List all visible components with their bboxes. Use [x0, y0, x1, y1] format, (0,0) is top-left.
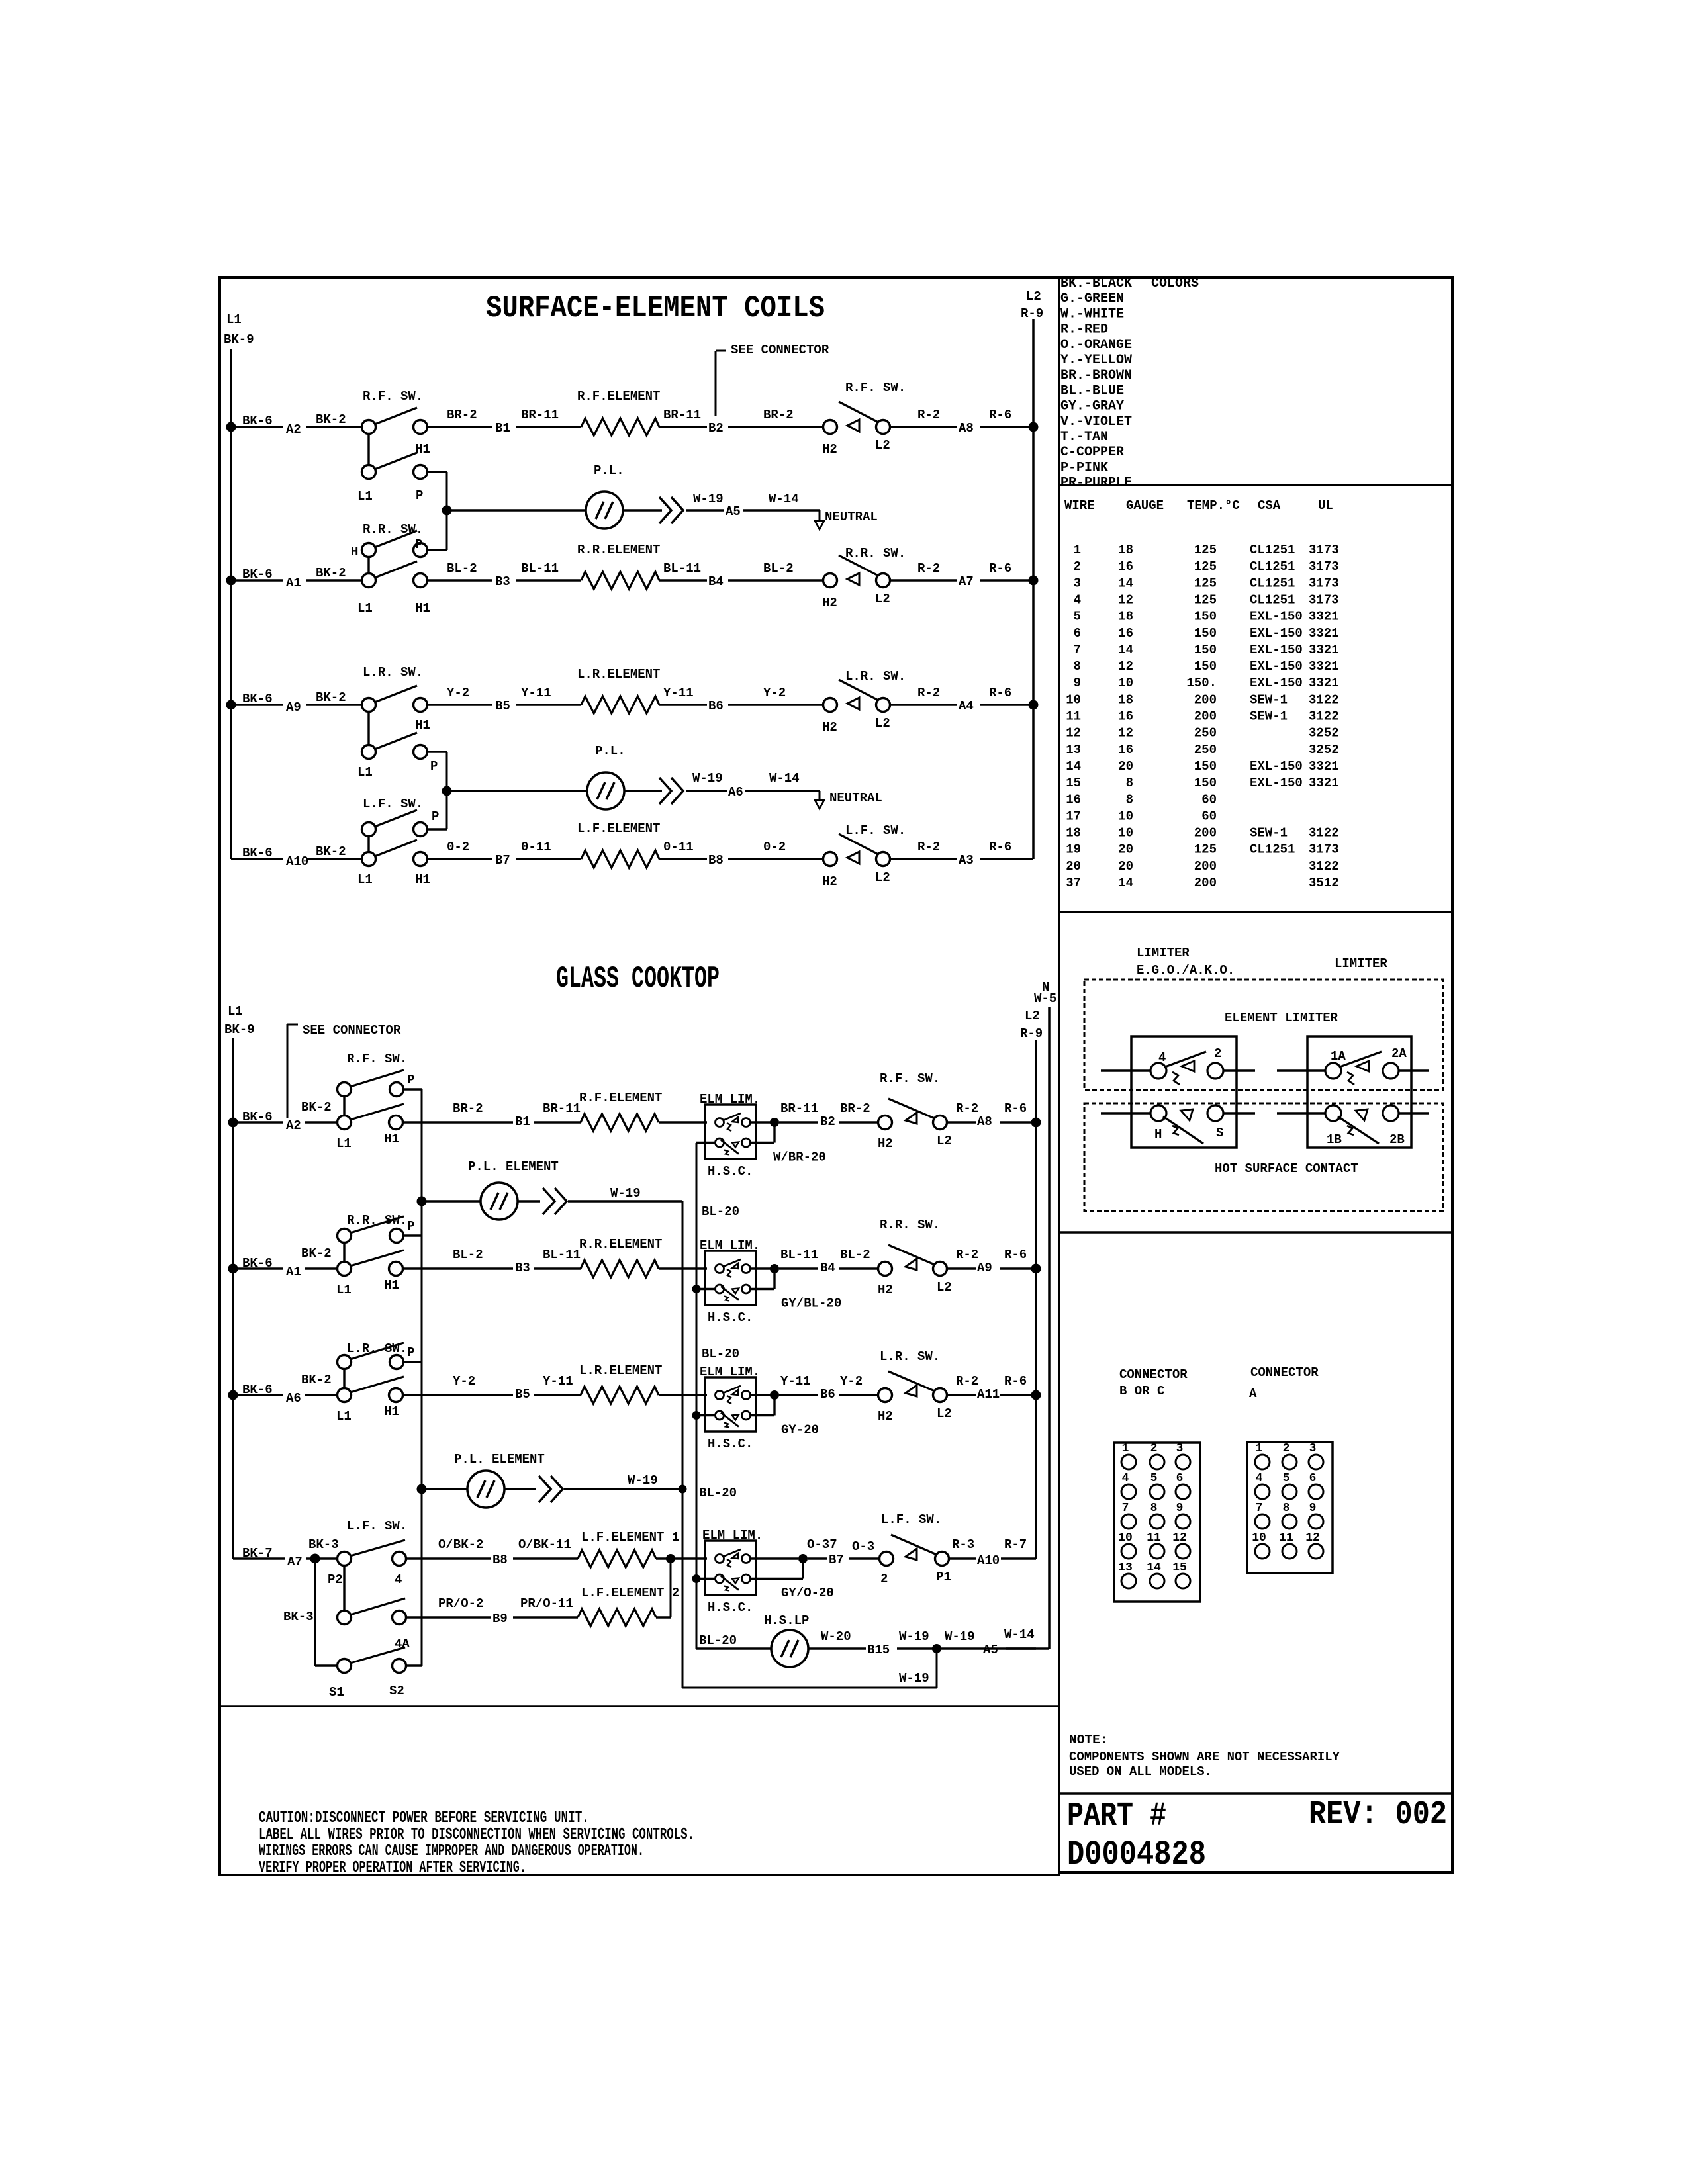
svg-text:EXL-150: EXL-150 [1250, 676, 1303, 690]
svg-text:W-5: W-5 [1034, 991, 1056, 1006]
svg-text:W-19: W-19 [899, 1671, 929, 1686]
svg-text:10: 10 [1252, 1531, 1266, 1545]
wire R-2 A8 R-6 (glass row R.F.) [947, 1121, 976, 1123]
wire R-2 A9 R-6 (glass row R.R.) [947, 1267, 976, 1269]
node A7 dot (surface row R.R.) [1029, 576, 1039, 586]
svg-text:125: 125 [1194, 842, 1217, 857]
wire BK-6 A1 BK-2 (glass row R.R.) [233, 1267, 283, 1269]
svg-text:R.F.ELEMENT: R.F.ELEMENT [577, 389, 660, 404]
wire P to pilot bus (R.F., surface) [428, 471, 447, 473]
wire BL-2 B3 BL-11 (surface row R.R.) [428, 579, 492, 581]
wire W-14 to neutral (surface P.L.1) [743, 509, 820, 511]
node element junction dot (glass L.F.) [666, 1554, 675, 1563]
svg-text:P: P [432, 809, 439, 824]
svg-text:A9: A9 [286, 700, 301, 715]
svg-text:9: 9 [1309, 1502, 1317, 1515]
svg-text:BK-2: BK-2 [301, 1100, 332, 1115]
node A6 dot (glass row L.R.) [228, 1390, 238, 1400]
svg-text:P-PINK: P-PINK [1060, 460, 1108, 475]
svg-text:7: 7 [1256, 1502, 1263, 1515]
svg-text:G.-GREEN: G.-GREEN [1060, 291, 1124, 306]
resistor L.R.ELEMENT (glass row L.R.) [581, 1387, 659, 1404]
node A1 dot (glass row R.R.) [228, 1264, 238, 1274]
svg-text:SURFACE-ELEMENT COILS: SURFACE-ELEMENT COILS [486, 291, 825, 326]
svg-text:3173: 3173 [1309, 559, 1339, 574]
svg-text:R-2: R-2 [917, 840, 940, 854]
wire BR-11 B2 BR-2 (glass row R.F.) [779, 1121, 818, 1123]
svg-text:L1: L1 [357, 765, 373, 780]
wire BL-2 B3 BL-11 (glass row R.R.) [403, 1267, 513, 1269]
svg-text:Y-11: Y-11 [780, 1374, 811, 1388]
svg-text:18: 18 [1066, 826, 1081, 841]
border frame: wire-table divider [1059, 911, 1452, 913]
svg-text:14: 14 [1147, 1561, 1161, 1574]
wire W-19 bus vertical (glass) [682, 1201, 684, 1688]
wire pilot bus upper (surface) [446, 472, 448, 550]
svg-text:H.S.C.: H.S.C. [708, 1600, 753, 1615]
svg-text:16: 16 [1118, 743, 1133, 757]
svg-text:3321: 3321 [1309, 610, 1339, 624]
svg-text:H2: H2 [822, 720, 837, 735]
svg-text:BK-3: BK-3 [308, 1537, 339, 1552]
svg-text:O.-ORANGE: O.-ORANGE [1060, 338, 1132, 353]
wire W-5 neutral bus (glass right) [1048, 1007, 1051, 1649]
wire H.S.C. GY-20 jumper (glass row L.R.) [751, 1414, 774, 1416]
svg-text:BK-6: BK-6 [242, 1256, 273, 1271]
svg-text:P.L. ELEMENT: P.L. ELEMENT [468, 1160, 559, 1174]
ground NEUTRAL arrow 2 (surface) [819, 791, 821, 801]
svg-text:BK-2: BK-2 [316, 844, 346, 859]
svg-text:20: 20 [1066, 859, 1081, 874]
svg-text:B5: B5 [515, 1387, 530, 1402]
svg-text:COLORS: COLORS [1151, 276, 1199, 291]
svg-text:L2: L2 [875, 438, 890, 453]
svg-text:CL1251: CL1251 [1250, 559, 1295, 574]
svg-text:PR-PURPLE: PR-PURPLE [1060, 476, 1132, 491]
svg-text:R-2: R-2 [956, 1101, 978, 1116]
svg-text:14: 14 [1118, 576, 1133, 590]
svg-text:3252: 3252 [1309, 726, 1339, 741]
svg-text:250: 250 [1194, 726, 1217, 741]
wire element 2 up to junction (glass) [656, 1616, 671, 1618]
wire W-19 return (glass) [936, 1649, 938, 1688]
svg-text:L.F.ELEMENT 2: L.F.ELEMENT 2 [581, 1586, 679, 1600]
svg-text:10: 10 [1118, 676, 1133, 690]
svg-text:20: 20 [1118, 842, 1133, 857]
svg-text:A1: A1 [286, 576, 301, 590]
svg-text:H2: H2 [878, 1409, 893, 1424]
wire BR-2 B1 BR-11 (surface row R.F.) [428, 426, 492, 428]
thermal-limiter ELM LIM. L.F. box [705, 1541, 756, 1595]
wire SEE CONNECTOR stub (surface) [715, 351, 717, 416]
svg-text:GLASS COOKTOP: GLASS COOKTOP [556, 962, 720, 996]
svg-text:SEE CONNECTOR: SEE CONNECTOR [731, 343, 829, 357]
svg-text:NOTE:: NOTE: [1069, 1733, 1108, 1747]
svg-text:O/BK-2: O/BK-2 [438, 1537, 483, 1552]
svg-text:A4: A4 [959, 699, 974, 713]
wire BL-20 to H.S.LP lamp (glass) [696, 1647, 771, 1649]
wire Y-2 B5 Y-11 (surface row L.R.) [428, 704, 492, 705]
connector B-or-C box [1114, 1443, 1200, 1602]
svg-text:2: 2 [1283, 1442, 1290, 1455]
wire P pilot stub (glass R.R.) [404, 1234, 422, 1236]
node limiter output dot (glass row R.R.) [770, 1264, 779, 1273]
svg-text:P: P [415, 537, 422, 552]
svg-text:L1: L1 [357, 601, 373, 615]
svg-text:O-3: O-3 [852, 1539, 874, 1554]
svg-text:H1: H1 [384, 1404, 399, 1419]
svg-text:PR/O-2: PR/O-2 [438, 1596, 483, 1611]
switch R.R. SW. left contacts (surface) [362, 574, 376, 588]
svg-text:GY.-GRAY: GY.-GRAY [1060, 399, 1124, 414]
svg-text:SEW-1: SEW-1 [1250, 709, 1288, 724]
resistor L.F.ELEMENT 2 (glass) [578, 1609, 656, 1626]
svg-text:O/BK-11: O/BK-11 [518, 1537, 571, 1552]
wire BK-6 A1 BK-2 (surface row R.R.) [231, 579, 283, 581]
svg-text:W-14: W-14 [1004, 1627, 1035, 1642]
svg-text:60: 60 [1201, 809, 1217, 823]
svg-text:C-COPPER: C-COPPER [1060, 445, 1124, 460]
svg-text:ELM LIM.: ELM LIM. [700, 1238, 760, 1253]
svg-text:P2: P2 [328, 1572, 343, 1587]
svg-text:W-19: W-19 [692, 771, 723, 786]
svg-text:R-6: R-6 [989, 686, 1011, 700]
svg-text:B OR C: B OR C [1119, 1384, 1164, 1398]
svg-text:L2: L2 [937, 1280, 952, 1295]
switch R.F. SW. left contacts (surface) [362, 420, 376, 434]
svg-text:NEUTRAL: NEUTRAL [829, 791, 882, 805]
switch R.R. SW. left contacts (glass) [338, 1262, 352, 1276]
svg-text:17: 17 [1066, 809, 1081, 823]
svg-text:3122: 3122 [1309, 709, 1339, 724]
svg-text:3321: 3321 [1309, 676, 1339, 690]
svg-text:PART #: PART # [1067, 1797, 1166, 1835]
svg-text:13: 13 [1066, 743, 1081, 757]
svg-text:R-2: R-2 [956, 1248, 978, 1262]
wire H.S.C. to BL-20 bus (glass row R.F.) [696, 1142, 716, 1144]
svg-text:14: 14 [1118, 643, 1133, 657]
svg-text:8: 8 [1150, 1502, 1158, 1515]
svg-text:BL-2: BL-2 [453, 1248, 483, 1262]
svg-text:CL1251: CL1251 [1250, 842, 1295, 857]
svg-text:EXL-150: EXL-150 [1250, 659, 1303, 674]
wire P pilot stub (glass L.R.) [404, 1361, 422, 1363]
svg-text:L.R.ELEMENT: L.R.ELEMENT [579, 1363, 662, 1378]
svg-text:COMPONENTS SHOWN ARE NOT NECES: COMPONENTS SHOWN ARE NOT NECESSARILY [1069, 1750, 1340, 1764]
svg-text:16: 16 [1118, 559, 1133, 574]
svg-text:A7: A7 [287, 1555, 303, 1569]
svg-text:R.F. SW.: R.F. SW. [880, 1071, 940, 1086]
svg-text:A3: A3 [959, 853, 974, 868]
wire W-14 to W-5 bus (glass) [1006, 1647, 1049, 1649]
svg-text:W-14: W-14 [769, 771, 800, 786]
node A2 dot (surface row R.F.) [226, 422, 236, 432]
svg-text:L2: L2 [875, 870, 890, 885]
svg-text:L.F.ELEMENT: L.F.ELEMENT [577, 821, 660, 836]
svg-text:6: 6 [1074, 626, 1081, 641]
svg-text:150: 150 [1194, 626, 1217, 641]
svg-text:B4: B4 [708, 574, 724, 589]
svg-text:USED ON ALL MODELS.: USED ON ALL MODELS. [1069, 1764, 1212, 1779]
svg-text:3321: 3321 [1309, 759, 1339, 774]
svg-text:P.L.: P.L. [594, 463, 624, 478]
svg-text:BL-11: BL-11 [543, 1248, 581, 1262]
svg-text:Y-2: Y-2 [763, 686, 786, 700]
switch R.R. SW. right contacts H2 L2 (surface) [823, 574, 837, 588]
wire R-9 bus (glass right) [1035, 1040, 1037, 1559]
svg-text:Y-2: Y-2 [453, 1374, 475, 1388]
svg-text:H1: H1 [415, 718, 430, 733]
svg-text:Y-2: Y-2 [840, 1374, 863, 1388]
switch L.F. SW. right contacts H2 L2 (surface) [823, 852, 837, 866]
switch limiter U1 contacts H-S [1150, 1105, 1166, 1121]
svg-text:R-6: R-6 [1004, 1374, 1027, 1388]
node A9 dot (glass row R.R.) [1031, 1264, 1041, 1274]
svg-text:B7: B7 [495, 853, 510, 868]
node BL-20 junction (glass row R.R.) [692, 1285, 701, 1293]
svg-text:PR/O-11: PR/O-11 [520, 1596, 573, 1611]
svg-text:0-11: 0-11 [663, 840, 694, 854]
svg-text:BL-20: BL-20 [699, 1633, 737, 1648]
wire H.S.C. to BL-20 bus (glass row L.R.) [696, 1414, 716, 1416]
box ELEMENT LIMITER dashed [1084, 979, 1443, 1090]
lamp P.L. 1 (surface) [447, 509, 586, 511]
wire BK-6 A9 BK-2 (surface row L.R.) [231, 704, 283, 705]
svg-text:R.R. SW.: R.R. SW. [363, 522, 423, 537]
node limiter output dot (glass row L.R.) [770, 1390, 779, 1400]
svg-text:UL: UL [1318, 498, 1333, 513]
svg-text:5: 5 [1283, 1472, 1290, 1485]
border frame: part-number divider [1059, 1792, 1452, 1795]
svg-text:GY/BL-20: GY/BL-20 [781, 1297, 841, 1311]
wire P to pilot bus (R.R., surface) [428, 549, 447, 551]
svg-text:EXL-150: EXL-150 [1250, 776, 1303, 790]
wire H.S.C. W/BR-20 jumper (glass row R.F.) [751, 1142, 774, 1144]
svg-text:R-2: R-2 [917, 686, 940, 700]
switch L.R. SW. right contacts H2 L2 (surface) [823, 698, 837, 712]
svg-text:3173: 3173 [1309, 592, 1339, 607]
wire pilot bus (glass) [421, 1089, 423, 1666]
wire pilot bus lower (surface) [446, 752, 448, 829]
svg-text:L2: L2 [1025, 1009, 1040, 1023]
svg-text:3: 3 [1074, 576, 1081, 590]
svg-text:R-2: R-2 [917, 408, 940, 422]
limiter U1 box (E.G.O./A.K.O.) [1131, 1036, 1237, 1148]
svg-text:3122: 3122 [1309, 859, 1339, 874]
svg-text:P: P [407, 1219, 414, 1234]
svg-text:L.F. SW.: L.F. SW. [845, 823, 906, 838]
svg-text:ELM LIM.: ELM LIM. [700, 1092, 760, 1107]
svg-text:BR-11: BR-11 [780, 1101, 818, 1116]
svg-text:BL-20: BL-20 [702, 1205, 739, 1219]
connector A box [1247, 1442, 1333, 1573]
svg-text:L.F. SW.: L.F. SW. [347, 1519, 407, 1533]
svg-text:P: P [430, 759, 438, 774]
wire L1 bus (glass left) [232, 1038, 234, 1559]
wire BR-2 B1 BR-11 (glass row R.F.) [403, 1121, 513, 1123]
wire SEE CONNECTOR stub (glass) [287, 1024, 289, 1118]
wire element to limiter (glass row R.F.) [659, 1121, 707, 1123]
svg-text:L2: L2 [875, 716, 890, 731]
wire BL-11 B4 BL-2 (surface row R.R.) [659, 579, 707, 581]
svg-text:L.R.ELEMENT: L.R.ELEMENT [577, 667, 660, 682]
switch L.F. SW. pilot contacts P (surface) [362, 823, 376, 837]
svg-text:BK-2: BK-2 [301, 1246, 332, 1261]
svg-text:15: 15 [1172, 1561, 1187, 1574]
svg-text:125: 125 [1194, 559, 1217, 574]
svg-text:CSA: CSA [1258, 498, 1281, 513]
svg-text:BL-20: BL-20 [702, 1347, 739, 1361]
node A9 dot (surface row L.R.) [226, 700, 236, 710]
svg-text:12: 12 [1172, 1531, 1187, 1545]
wire H.S.C. to BL-20 bus (glass row R.R.) [696, 1288, 716, 1290]
switch L.F. SW. left contacts (surface) [362, 852, 376, 866]
svg-text:3321: 3321 [1309, 626, 1339, 641]
svg-text:3122: 3122 [1309, 826, 1339, 841]
switch L.F. SW. right contacts 2 P1 (glass) [880, 1552, 894, 1566]
svg-text:5: 5 [1074, 610, 1081, 624]
svg-text:A6: A6 [286, 1391, 301, 1406]
lamp P.L. ELEMENT 1 (glass) [422, 1200, 481, 1202]
svg-text:H1: H1 [384, 1132, 399, 1146]
svg-text:2: 2 [1214, 1046, 1221, 1061]
svg-text:V.-VIOLET: V.-VIOLET [1060, 414, 1132, 430]
svg-text:BK-2: BK-2 [301, 1373, 332, 1387]
wire R-2 A8 R-6 (surface row R.F.) [890, 426, 957, 428]
svg-text:3: 3 [1309, 1442, 1317, 1455]
svg-text:60: 60 [1201, 792, 1217, 807]
svg-text:R.F. SW.: R.F. SW. [363, 389, 423, 404]
wire O-37 B7 O-3 (glass L.F.) [808, 1557, 827, 1559]
svg-text:R-3: R-3 [952, 1537, 974, 1552]
svg-text:L1: L1 [226, 312, 242, 327]
svg-text:BL-2: BL-2 [447, 561, 477, 576]
thermal-limiter ELM LIM. R.R. box [705, 1251, 756, 1305]
svg-text:WIRINGS ERRORS CAN CAUSE IMPRO: WIRINGS ERRORS CAN CAUSE IMPROPER AND DA… [259, 1843, 644, 1860]
svg-text:H1: H1 [415, 442, 430, 457]
svg-text:BK-9: BK-9 [224, 332, 254, 347]
svg-text:H.S.C.: H.S.C. [708, 1310, 753, 1325]
svg-text:P.L. ELEMENT: P.L. ELEMENT [454, 1452, 545, 1467]
svg-text:R.R.ELEMENT: R.R.ELEMENT [579, 1237, 662, 1251]
svg-text:B6: B6 [820, 1387, 835, 1402]
svg-text:18: 18 [1118, 692, 1133, 707]
lamp H.S.LP (glass) [771, 1630, 808, 1667]
node pilot junction 2 (glass) [417, 1484, 427, 1494]
svg-text:3173: 3173 [1309, 842, 1339, 857]
wire PR/O-2 B9 PR/O-11 (glass L.F.2) [406, 1616, 491, 1618]
svg-text:L.F. SW.: L.F. SW. [881, 1512, 941, 1527]
svg-text:BK-2: BK-2 [316, 690, 346, 705]
svg-text:R.F. SW.: R.F. SW. [845, 381, 906, 395]
svg-text:Y-2: Y-2 [447, 686, 469, 700]
svg-text:L.R. SW.: L.R. SW. [845, 669, 906, 684]
wire W-14 to neutral (surface P.L.2) [745, 790, 820, 792]
switch R.F. SW. pilot contacts L1 P (surface) [362, 465, 376, 479]
wire 0-11 B8 0-2 (surface row L.F.) [659, 858, 707, 860]
switch R.R. SW. right contacts H2 L2 (glass) [878, 1262, 892, 1276]
svg-text:1B: 1B [1327, 1132, 1342, 1147]
svg-text:2B: 2B [1389, 1132, 1405, 1147]
svg-text:H2: H2 [878, 1136, 893, 1151]
svg-text:CAUTION:DISCONNECT POWER BEFOR: CAUTION:DISCONNECT POWER BEFORE SERVICIN… [259, 1809, 589, 1827]
node A4 dot (surface row L.R.) [1029, 700, 1039, 710]
svg-text:ELEMENT LIMITER: ELEMENT LIMITER [1225, 1011, 1338, 1025]
svg-text:19: 19 [1066, 842, 1081, 857]
wire P to pilot bus (L.F., surface) [428, 828, 447, 830]
svg-text:150: 150 [1194, 643, 1217, 657]
svg-text:150: 150 [1194, 759, 1217, 774]
svg-text:L1: L1 [228, 1004, 243, 1019]
switch L.R. SW. pilot contacts L1 P (surface) [362, 745, 376, 759]
svg-text:B2: B2 [820, 1115, 835, 1129]
svg-text:P: P [416, 488, 423, 503]
svg-text:12: 12 [1305, 1531, 1320, 1545]
svg-text:R.R. SW.: R.R. SW. [845, 546, 906, 561]
wire lamp to connector arrow (surface P.L.1) [623, 509, 662, 511]
node A11 dot (glass row L.R.) [1031, 1390, 1041, 1400]
svg-text:A8: A8 [959, 421, 974, 435]
wire Y-11 B6 Y-2 (surface row L.R.) [659, 704, 707, 705]
node A8 dot (surface row R.F.) [1029, 422, 1039, 432]
svg-text:Y.-YELLOW: Y.-YELLOW [1060, 353, 1132, 368]
resistor R.F.ELEMENT (surface row R.F.) [581, 418, 659, 435]
svg-text:10: 10 [1118, 826, 1133, 841]
svg-text:H: H [1154, 1127, 1162, 1142]
svg-text:R-6: R-6 [989, 840, 1011, 854]
svg-text:CL1251: CL1251 [1250, 592, 1295, 607]
svg-text:BK-6: BK-6 [242, 1110, 273, 1124]
svg-text:11: 11 [1066, 709, 1081, 724]
svg-text:CL1251: CL1251 [1250, 543, 1295, 557]
node A8 dot (glass row R.F.) [1031, 1118, 1041, 1128]
svg-text:10: 10 [1066, 692, 1081, 707]
svg-text:T.-TAN: T.-TAN [1060, 430, 1108, 445]
wire W-20 B15 W-19 (glass) [808, 1647, 866, 1649]
svg-text:ELM LIM.: ELM LIM. [702, 1528, 763, 1543]
svg-text:LABEL ALL WIRES PRIOR TO DISCO: LABEL ALL WIRES PRIOR TO DISCONNECTION W… [259, 1826, 694, 1844]
svg-text:12: 12 [1118, 659, 1133, 674]
svg-text:L.F. SW.: L.F. SW. [363, 797, 423, 811]
wire element 1 to junction (glass) [656, 1557, 671, 1559]
wire BK-6 A2 BK-2 (glass row R.F.) [233, 1121, 283, 1123]
switch R.R. SW. pilot contacts H P (surface) [362, 543, 376, 557]
svg-text:150: 150 [1194, 776, 1217, 790]
wire BK-6 A2 BK-2 (surface row R.F.) [231, 426, 283, 428]
border frame: limiter divider [1059, 1231, 1452, 1234]
svg-text:18: 18 [1118, 543, 1133, 557]
svg-text:SEW-1: SEW-1 [1250, 692, 1288, 707]
wire BR-11 B2 BR-2 (surface row R.F.) [659, 426, 707, 428]
resistor L.F.ELEMENT (surface row L.F.) [581, 850, 659, 868]
svg-text:11: 11 [1147, 1531, 1161, 1545]
svg-text:B15: B15 [867, 1643, 890, 1657]
svg-text:W-19: W-19 [693, 492, 724, 506]
svg-text:B6: B6 [708, 699, 724, 713]
wire BK-6 A6 BK-2 (glass row L.R.) [233, 1394, 283, 1396]
ground NEUTRAL arrow 1 (surface) [819, 510, 821, 522]
svg-text:H2: H2 [878, 1283, 893, 1297]
svg-text:11: 11 [1279, 1531, 1293, 1545]
wire H.S.C. GY/BL-20 jumper (glass row R.R.) [751, 1288, 774, 1290]
svg-text:R.R. SW.: R.R. SW. [347, 1213, 407, 1228]
svg-text:R-7: R-7 [1004, 1537, 1027, 1552]
svg-text:L.R. SW.: L.R. SW. [880, 1349, 940, 1364]
svg-text:6: 6 [1309, 1472, 1317, 1485]
svg-text:EXL-150: EXL-150 [1250, 759, 1303, 774]
wire lamp 1 to W-19 bus (glass) [518, 1200, 540, 1202]
node BL-20 junction (glass row L.R.) [692, 1411, 701, 1420]
